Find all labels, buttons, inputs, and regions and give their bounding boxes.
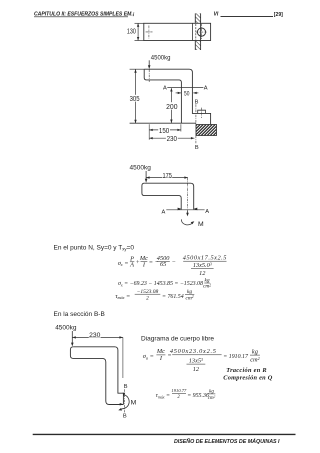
svg-text:τmáx =: τmáx = bbox=[115, 293, 130, 300]
svg-text:Tracción en R: Tracción en R bbox=[226, 367, 267, 374]
dimension 150 label bbox=[158, 127, 170, 134]
header tab underline bbox=[221, 15, 274, 17]
fig1 support hatched block bbox=[186, 125, 227, 136]
fig3 moment arc bbox=[122, 395, 130, 409]
fig3 bracket left cap and inner outline bbox=[70, 347, 123, 405]
fig1 ground baseline bbox=[130, 122, 196, 124]
svg-text:50: 50 bbox=[184, 90, 190, 97]
plan-view hole circle bbox=[197, 28, 205, 36]
svg-text:12: 12 bbox=[199, 270, 206, 277]
svg-text:kg: kg bbox=[252, 349, 258, 356]
svg-text:150: 150 bbox=[159, 128, 169, 135]
dimension 305 bbox=[135, 69, 137, 123]
svg-text:σx =: σx = bbox=[118, 260, 129, 267]
plan-view wall hatched strip bbox=[195, 13, 200, 50]
svg-text:65: 65 bbox=[160, 261, 166, 268]
fig3 section line B-B bbox=[123, 389, 125, 412]
equation 4: sigma_a bbox=[143, 348, 260, 373]
fig1 force arrow bbox=[148, 60, 151, 69]
fig1 dim extension lines bbox=[149, 124, 181, 140]
fig1 boss centerline bbox=[201, 108, 203, 118]
svg-text:[29]: [29] bbox=[274, 12, 283, 18]
svg-text:A: A bbox=[129, 262, 134, 269]
svg-text:cm2: cm2 bbox=[208, 395, 216, 401]
svg-text:13x53: 13x53 bbox=[189, 357, 203, 365]
fig3 cut edge arrow top bbox=[123, 393, 126, 397]
equation 5: tau_max bottom bbox=[156, 388, 216, 401]
svg-text:En el punto N, Sy=0 y Txy=0: En el punto N, Sy=0 y Txy=0 bbox=[54, 244, 135, 251]
plan-view force point centerline cross bbox=[146, 26, 153, 39]
plan-view wall hidden edge (dashed) bbox=[195, 24, 197, 40]
svg-text:τmáx =: τmáx = bbox=[156, 393, 170, 399]
svg-text:B: B bbox=[195, 145, 199, 151]
plan-view end plate edge bbox=[200, 23, 202, 40]
svg-text:12: 12 bbox=[193, 366, 200, 373]
footer rule bbox=[33, 433, 296, 435]
dimension 230 (fig3) bbox=[72, 336, 123, 338]
dimension 305 label bbox=[129, 95, 141, 102]
svg-text:cm2: cm2 bbox=[250, 356, 259, 364]
svg-text:2: 2 bbox=[177, 395, 180, 400]
fig3 force arrow bbox=[71, 331, 74, 346]
dimension 175 label bbox=[162, 172, 172, 177]
dimension 50 bbox=[176, 92, 199, 94]
plan-view bar outline bbox=[144, 23, 211, 40]
fig2 force arrow bbox=[145, 171, 148, 183]
section line A-A bbox=[167, 87, 203, 89]
equation 3: tau_max bbox=[115, 289, 194, 302]
dimension 175 bbox=[146, 177, 188, 179]
svg-text:DISEÑO DE ELEMENTOS DE MÁQUINA: DISEÑO DE ELEMENTOS DE MÁQUINAS I bbox=[174, 438, 280, 445]
dimension 200 bbox=[170, 88, 172, 123]
equation 1: sigma_x = P/A + Mc/I bbox=[118, 254, 227, 277]
dimension 150 bbox=[149, 129, 181, 131]
svg-text:I: I bbox=[142, 262, 146, 269]
fig1 bracket inner outline bbox=[144, 69, 181, 123]
svg-text:230: 230 bbox=[167, 136, 177, 143]
svg-text:A: A bbox=[205, 209, 209, 215]
fig2 normal force N arrow bbox=[186, 210, 189, 216]
svg-text:4500x23.0x2.5: 4500x23.0x2.5 bbox=[170, 348, 217, 355]
header title underline bbox=[34, 16, 128, 18]
fig1 bracket outer outline bbox=[144, 69, 210, 124]
svg-text:−: − bbox=[172, 258, 176, 265]
svg-text:175: 175 bbox=[163, 172, 173, 179]
dimension 130 bbox=[135, 23, 144, 40]
fig2 cut line A-A bbox=[166, 209, 204, 211]
svg-text:cm2: cm2 bbox=[185, 295, 193, 301]
svg-text:VI: VI bbox=[214, 11, 219, 17]
svg-text:305: 305 bbox=[130, 96, 140, 103]
fig3 bracket outer outline bbox=[73, 347, 123, 405]
svg-text:σa =: σa = bbox=[143, 353, 154, 360]
plan-view wall front edge (solid) bbox=[192, 23, 194, 40]
fig2 bar outer outline bbox=[144, 183, 193, 209]
svg-text:4500x17.5x2.5: 4500x17.5x2.5 bbox=[183, 254, 227, 261]
equation 2: sigma_x numeric bbox=[118, 278, 211, 290]
svg-text:230: 230 bbox=[89, 332, 101, 339]
svg-text:4500kg: 4500kg bbox=[55, 325, 77, 332]
fig3 moment arrowhead bbox=[118, 408, 122, 411]
fig2 moment arrowhead bbox=[191, 221, 195, 224]
svg-text:= 761.54: = 761.54 bbox=[162, 294, 184, 300]
svg-text:cm2: cm2 bbox=[203, 283, 211, 289]
dimension 230 label (fig3) bbox=[89, 332, 101, 338]
svg-text:σx = −69.23 − 1453.85 = −1523.: σx = −69.23 − 1453.85 = −1523.08 bbox=[118, 281, 203, 287]
eq1 big fraction bar bbox=[183, 260, 226, 262]
svg-text:4500kg: 4500kg bbox=[151, 56, 171, 62]
svg-text:A: A bbox=[162, 209, 166, 215]
svg-text:M: M bbox=[198, 221, 204, 228]
dimension 230 bbox=[149, 137, 194, 139]
svg-text:Compresión en Q: Compresión en Q bbox=[223, 375, 272, 382]
dimension 200 label bbox=[165, 102, 178, 109]
fig2 column centerline bbox=[187, 178, 189, 209]
fig1 force centerline through bar bbox=[148, 69, 150, 82]
svg-text:A: A bbox=[204, 85, 208, 91]
fig1 boss pad on foot bbox=[198, 110, 206, 113]
fig2 cut edge arrow right bbox=[194, 208, 198, 211]
svg-text:I: I bbox=[159, 355, 163, 362]
svg-text:1910.77: 1910.77 bbox=[171, 388, 187, 393]
svg-text:130: 130 bbox=[127, 29, 136, 36]
section line B-B bbox=[195, 104, 197, 143]
dimension 230 label bbox=[166, 135, 178, 142]
fig2 bar left cap and inner outline bbox=[142, 183, 181, 209]
svg-text:13x5.03: 13x5.03 bbox=[193, 262, 212, 270]
svg-text:M: M bbox=[131, 400, 137, 407]
fig2 moment arc bbox=[181, 219, 193, 224]
plan-view hole crosshair bbox=[196, 24, 207, 39]
svg-text:Diagrama de cuerpo libre: Diagrama de cuerpo libre bbox=[141, 335, 214, 342]
svg-text:= 955.36: = 955.36 bbox=[187, 393, 209, 399]
fig3 extension line to section B bbox=[122, 337, 124, 378]
svg-text:B: B bbox=[123, 413, 127, 419]
svg-text:2: 2 bbox=[146, 295, 149, 301]
svg-text:En la sección B-B: En la sección B-B bbox=[54, 311, 105, 318]
svg-text:B: B bbox=[195, 99, 199, 105]
svg-text:200: 200 bbox=[166, 104, 177, 111]
svg-text:= 1910.17: = 1910.17 bbox=[223, 354, 249, 360]
fig1 top extension line bbox=[130, 68, 145, 70]
svg-text:4500kg: 4500kg bbox=[130, 165, 152, 172]
fig3 cut edge arrow bottom bbox=[120, 403, 124, 406]
fig2 cut edge arrow left bbox=[178, 208, 182, 211]
svg-text:A: A bbox=[163, 85, 167, 91]
